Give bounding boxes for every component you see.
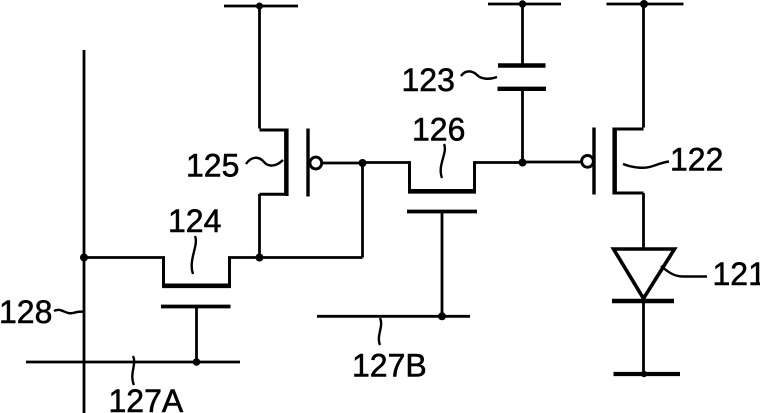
diode D121 triangle (anode) xyxy=(614,249,675,299)
transistor Q124 channel path xyxy=(164,256,230,285)
svg-text:125: 125 xyxy=(186,148,239,184)
capacitor C123 top plate xyxy=(498,63,546,67)
svg-text:126: 126 xyxy=(412,112,465,148)
transistor Q126 gate bar xyxy=(407,210,477,214)
transistor Q125 gate bar xyxy=(306,129,309,197)
capacitor C123 bottom plate xyxy=(498,87,547,91)
leader line for 127A xyxy=(132,356,134,385)
power rail above capacitor 123 xyxy=(488,3,561,6)
junction dot: node A xyxy=(359,159,367,167)
svg-text:124: 124 xyxy=(168,203,221,239)
leader squiggle for 123 xyxy=(461,71,497,78)
wire: node A to transistor 126 xyxy=(363,161,410,164)
power rail above 125 xyxy=(224,5,298,8)
transistor Q122 gate bar xyxy=(592,128,595,195)
svg-text:128: 128 xyxy=(0,294,52,330)
svg-text:121: 121 xyxy=(713,256,760,292)
wire: diode cathode to common bar xyxy=(642,301,645,374)
wire: scan line 127B xyxy=(317,315,470,318)
leader squiggle for 122 xyxy=(623,162,669,168)
wire: data line 128 (left vertical) xyxy=(83,50,86,413)
wire: 122 source from rail xyxy=(642,4,645,128)
svg-text:127B: 127B xyxy=(352,348,427,384)
svg-text:122: 122 xyxy=(670,142,723,178)
leader line for 124 xyxy=(192,236,196,274)
wire: line 128 to transistor 124 source xyxy=(84,256,162,259)
junction dot: node B (cap to gate row) xyxy=(519,159,527,167)
transistor Q122 channel path xyxy=(615,129,643,193)
wire: scan line 127A (bottom horizontal) xyxy=(26,361,240,364)
transistor Q125 gate circle (PMOS bubble) xyxy=(310,157,322,169)
junction dot: rail to capacitor xyxy=(519,0,526,7)
junction dot: 124 gate on 127A xyxy=(193,358,201,366)
junction dot: rail to 122 source xyxy=(640,0,648,8)
wire: 125 gate bubble to node A xyxy=(322,162,363,165)
transistor Q126 gate stub xyxy=(441,212,444,317)
transistor Q125 channel path xyxy=(260,130,286,194)
transistor Q124 gate bar xyxy=(161,305,231,309)
junction dot on common bar xyxy=(641,371,647,377)
svg-text:123: 123 xyxy=(402,62,455,98)
junction dot: rail to 125 source xyxy=(256,3,263,10)
wire: node A down to node wire row xyxy=(361,163,364,258)
wire: node B to 122 gate bubble xyxy=(523,161,582,164)
wire: 126 drain to node B xyxy=(475,161,523,164)
diode D121 cathode bar xyxy=(612,299,674,303)
power rail above 122 xyxy=(607,3,684,6)
transistor Q126 channel path xyxy=(410,161,475,190)
wire: 122 drain down to diode xyxy=(642,193,645,249)
capacitor C123 top stub xyxy=(521,4,524,66)
junction dot: 126 gate on 127B xyxy=(438,312,446,320)
wire: transistor 124 drain to node junction xyxy=(231,256,363,259)
svg-text:127A: 127A xyxy=(109,383,184,413)
leader line for 127B xyxy=(379,318,381,345)
transistor Q124 gate stub xyxy=(195,307,198,363)
wire: 125 drain down to node wire xyxy=(258,194,261,258)
leader squiggle for 128 xyxy=(54,310,84,313)
transistor Q122 gate circle (PMOS bubble) xyxy=(582,155,594,167)
junction dot: node wire on line 128 xyxy=(80,254,88,262)
wire: 125 source from rail xyxy=(258,6,261,129)
leader line for 126 xyxy=(441,144,445,178)
junction dot: 125 drain on node wire xyxy=(256,254,264,262)
common terminal bar below diode xyxy=(614,372,681,376)
capacitor C123 bottom stub xyxy=(521,89,524,163)
leader squiggle for 125 xyxy=(246,158,283,166)
leader line for 121 xyxy=(661,266,707,277)
